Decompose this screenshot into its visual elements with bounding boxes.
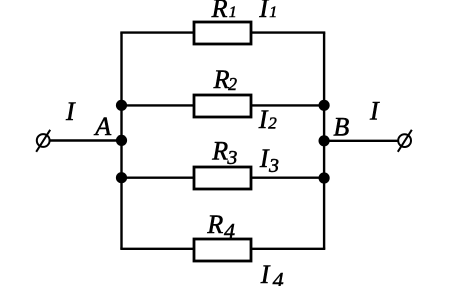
label R1 (211, 0, 237, 23)
svg-text:I: I (258, 0, 269, 23)
resistor R3 (194, 167, 251, 189)
wire: row2 right segment (251, 104, 324, 106)
node junction right row3 (319, 172, 330, 183)
svg-text:I: I (369, 97, 380, 126)
node junction right row2 (319, 100, 330, 111)
resistor R1 (194, 22, 251, 44)
svg-text:4: 4 (273, 267, 284, 286)
label I1 (258, 0, 277, 23)
svg-text:3: 3 (268, 155, 279, 177)
node junction left row2 (116, 100, 127, 111)
resistor R2 (194, 95, 251, 117)
label I3 (259, 144, 279, 177)
svg-text:4: 4 (224, 218, 235, 243)
label R4 (206, 210, 235, 243)
wire: row4 right segment (251, 248, 325, 250)
terminal left (36, 130, 50, 152)
svg-text:1: 1 (269, 4, 277, 21)
label R3 (211, 136, 237, 169)
svg-text:I: I (65, 97, 76, 126)
svg-text:B: B (333, 113, 349, 142)
terminal right (398, 130, 412, 152)
resistor R4 (194, 239, 251, 261)
label I2 (258, 105, 277, 134)
svg-text:I: I (258, 105, 269, 134)
svg-text:R: R (211, 0, 228, 23)
node A (116, 135, 127, 146)
svg-text:3: 3 (226, 147, 237, 169)
wire: right bus vertical (323, 33, 325, 249)
svg-text:2: 2 (228, 74, 237, 94)
wire: terminal to node A (50, 139, 122, 141)
svg-text:I: I (260, 260, 271, 286)
node junction left row3 (116, 172, 127, 183)
wire: left bus vertical (120, 33, 122, 249)
svg-text:R: R (213, 65, 230, 94)
wire: node B to terminal (324, 140, 398, 142)
node B (319, 135, 330, 146)
label R2 (213, 65, 238, 94)
svg-text:2: 2 (268, 114, 277, 133)
wire: row3 right segment (251, 176, 324, 178)
svg-text:R: R (211, 136, 228, 165)
svg-text:1: 1 (229, 4, 237, 21)
wire: row3 left segment (122, 176, 196, 178)
svg-text:A: A (93, 112, 111, 141)
wire: row1 left segment (120, 31, 195, 33)
wire: row2 left segment (122, 104, 196, 106)
label I4 (260, 260, 284, 286)
wire: row4 left segment (120, 248, 195, 250)
wire: row1 right segment (251, 31, 325, 33)
svg-text:R: R (206, 210, 223, 239)
